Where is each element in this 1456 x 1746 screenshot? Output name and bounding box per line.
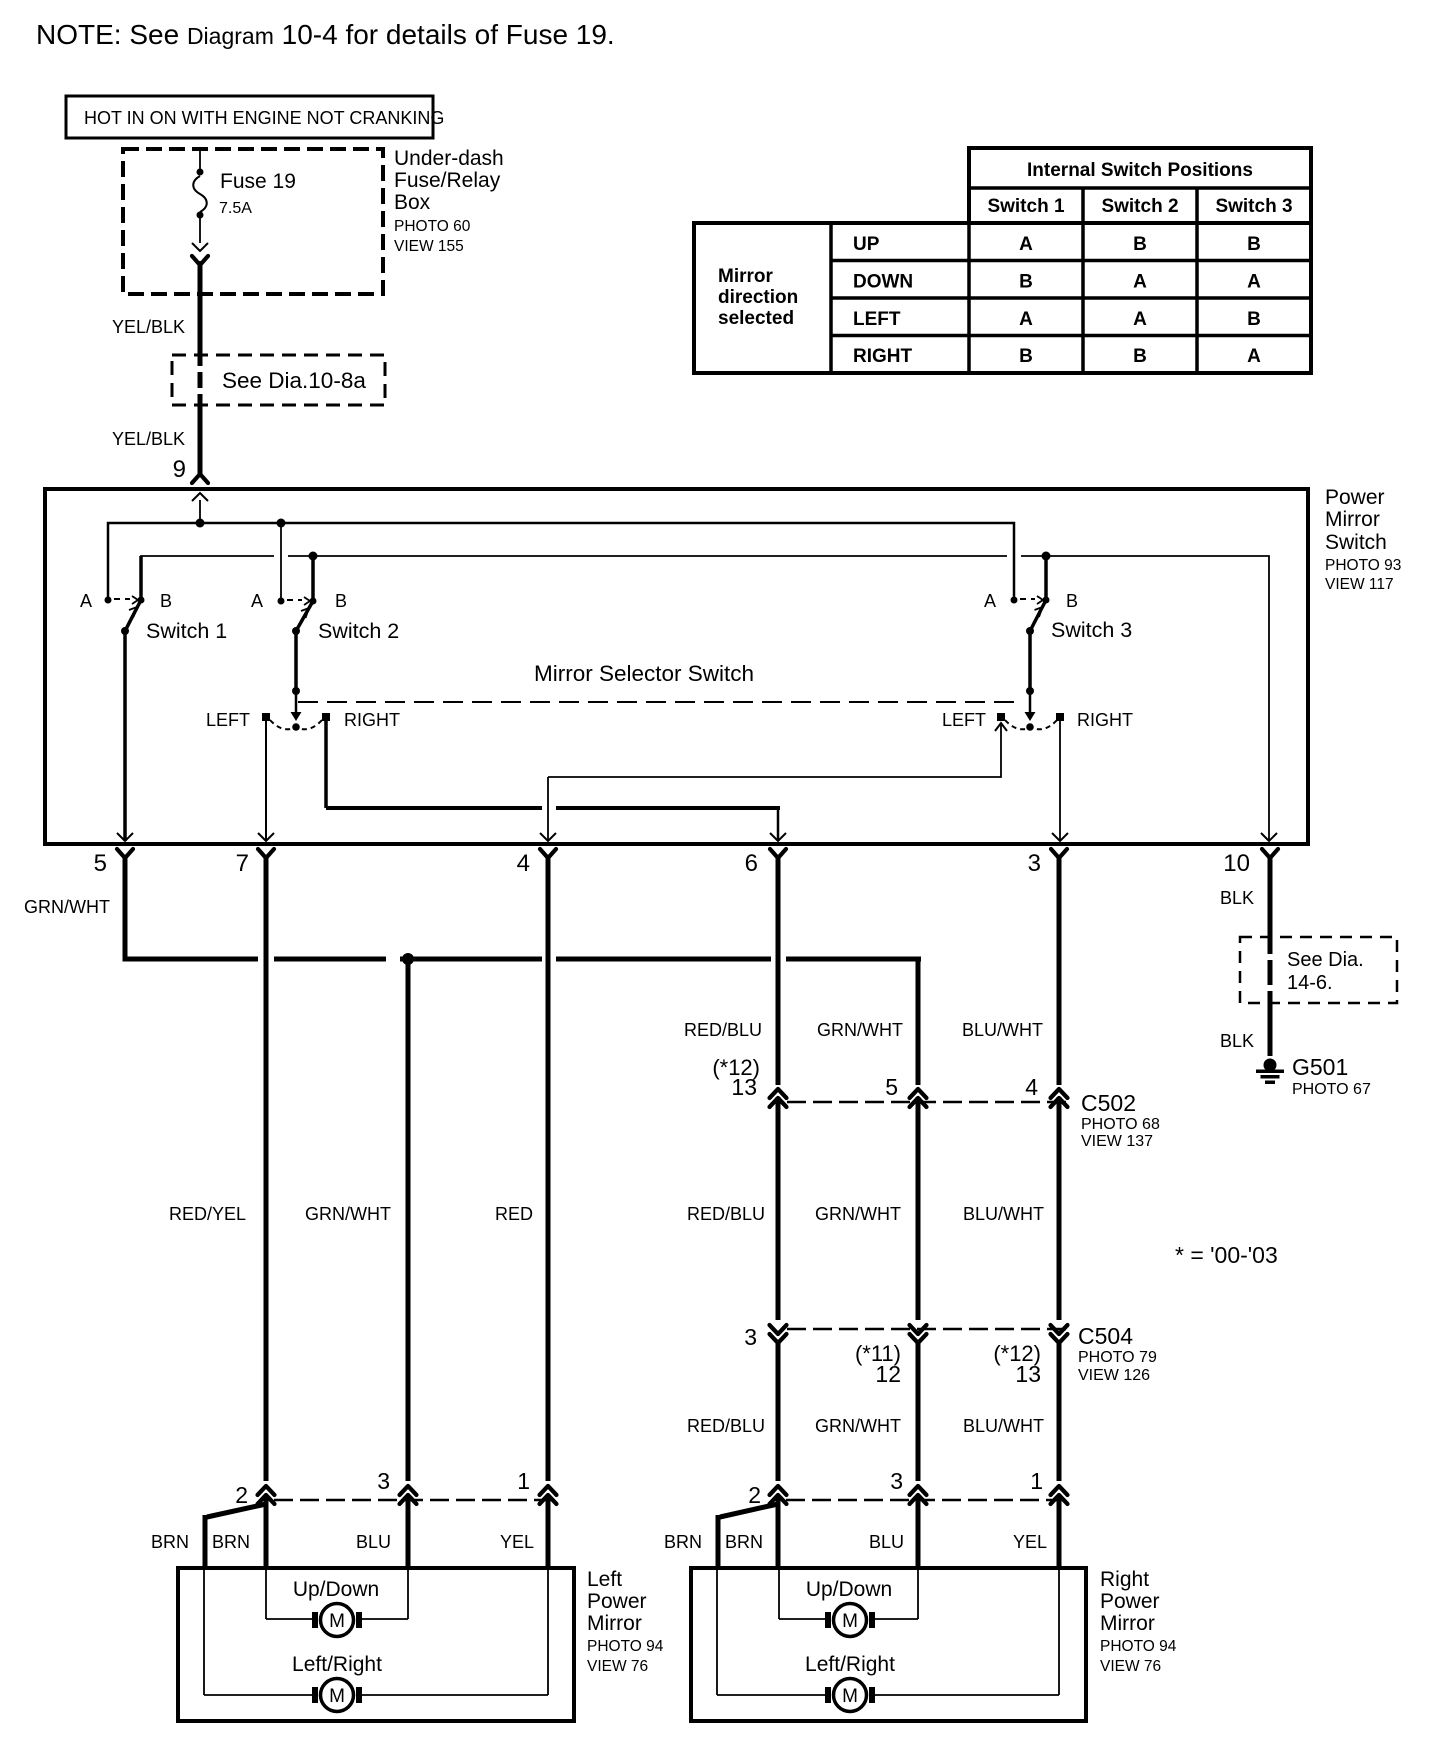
svg-text:13: 13 <box>1015 1361 1041 1387</box>
svg-text:G501: G501 <box>1292 1054 1348 1080</box>
svg-text:Mirror Selector Switch: Mirror Selector Switch <box>534 661 754 686</box>
svg-text:HOT IN ON WITH ENGINE NOT CRAN: HOT IN ON WITH ENGINE NOT CRANKING <box>84 108 444 128</box>
svg-text:RIGHT: RIGHT <box>344 710 400 730</box>
svg-text:B: B <box>1247 234 1261 255</box>
svg-text:BLU/WHT: BLU/WHT <box>963 1204 1044 1224</box>
svg-text:BLU: BLU <box>356 1532 391 1552</box>
svg-text:Switch 1: Switch 1 <box>146 619 227 643</box>
svg-text:M: M <box>329 1686 345 1707</box>
svg-text:Switch 2: Switch 2 <box>1101 196 1178 217</box>
svg-text:GRN/WHT: GRN/WHT <box>815 1204 901 1224</box>
svg-text:A: A <box>1019 309 1033 330</box>
svg-text:VIEW 155: VIEW 155 <box>394 238 464 255</box>
svg-text:Left/Right: Left/Right <box>805 1653 895 1676</box>
svg-text:3: 3 <box>377 1468 390 1494</box>
svg-text:1: 1 <box>1030 1468 1043 1494</box>
svg-text:C502: C502 <box>1081 1090 1136 1116</box>
svg-text:12: 12 <box>875 1361 901 1387</box>
svg-text:B: B <box>1066 591 1078 611</box>
svg-text:selected: selected <box>718 308 794 329</box>
svg-text:RIGHT: RIGHT <box>853 346 913 367</box>
svg-text:Power: Power <box>587 1590 647 1613</box>
svg-text:RED/BLU: RED/BLU <box>684 1020 762 1040</box>
svg-text:Switch 3: Switch 3 <box>1051 618 1132 642</box>
svg-text:B: B <box>1019 346 1033 367</box>
svg-text:A: A <box>1133 272 1147 293</box>
svg-text:M: M <box>842 1611 858 1632</box>
svg-text:(*12): (*12) <box>712 1055 760 1080</box>
svg-text:5: 5 <box>885 1074 898 1100</box>
svg-text:BLK: BLK <box>1220 1031 1254 1051</box>
svg-text:* = '00-'03: * = '00-'03 <box>1175 1242 1278 1268</box>
svg-text:BLU/WHT: BLU/WHT <box>962 1020 1043 1040</box>
svg-text:B: B <box>1133 234 1147 255</box>
svg-text:DOWN: DOWN <box>853 272 913 293</box>
svg-text:3: 3 <box>1028 850 1041 877</box>
svg-text:B: B <box>335 591 347 611</box>
svg-text:3: 3 <box>744 1324 757 1350</box>
svg-text:10: 10 <box>1223 850 1250 877</box>
svg-text:GRN/WHT: GRN/WHT <box>817 1020 903 1040</box>
svg-text:14-6.: 14-6. <box>1287 972 1333 994</box>
svg-text:Up/Down: Up/Down <box>806 1578 892 1601</box>
svg-text:direction: direction <box>718 287 798 308</box>
svg-text:A: A <box>1247 346 1261 367</box>
svg-text:A: A <box>251 591 263 611</box>
svg-text:B: B <box>1019 272 1033 293</box>
svg-text:PHOTO 68: PHOTO 68 <box>1081 1116 1160 1133</box>
svg-text:Switch: Switch <box>1325 531 1387 554</box>
svg-text:BLU: BLU <box>869 1532 904 1552</box>
svg-text:A: A <box>1133 309 1147 330</box>
svg-text:VIEW 76: VIEW 76 <box>1100 1658 1161 1675</box>
svg-text:VIEW 126: VIEW 126 <box>1078 1367 1150 1384</box>
svg-text:BLK: BLK <box>1220 888 1254 908</box>
svg-text:Switch 3: Switch 3 <box>1215 196 1292 217</box>
svg-text:7: 7 <box>236 850 249 877</box>
svg-text:B: B <box>1133 346 1147 367</box>
svg-text:Under-dash: Under-dash <box>394 147 504 170</box>
svg-text:YEL: YEL <box>500 1532 534 1552</box>
svg-text:LEFT: LEFT <box>206 710 250 730</box>
svg-text:VIEW 76: VIEW 76 <box>587 1658 648 1675</box>
svg-text:Switch 1: Switch 1 <box>987 196 1065 217</box>
svg-text:RED: RED <box>495 1204 533 1224</box>
svg-text:RIGHT: RIGHT <box>1077 710 1133 730</box>
svg-text:B: B <box>160 591 172 611</box>
svg-text:BRN: BRN <box>664 1532 702 1552</box>
svg-text:3: 3 <box>890 1468 903 1494</box>
svg-text:PHOTO 94: PHOTO 94 <box>1100 1638 1177 1655</box>
svg-text:M: M <box>842 1686 858 1707</box>
svg-text:BLU/WHT: BLU/WHT <box>963 1416 1044 1436</box>
svg-text:Fuse/Relay: Fuse/Relay <box>394 169 501 192</box>
svg-text:NOTE: See Diagram 10-4 for det: NOTE: See Diagram 10-4 for details of Fu… <box>36 19 615 50</box>
svg-text:Power: Power <box>1100 1590 1160 1613</box>
svg-text:VIEW 137: VIEW 137 <box>1081 1133 1153 1150</box>
svg-text:Right: Right <box>1100 1568 1149 1591</box>
svg-text:LEFT: LEFT <box>853 309 901 330</box>
svg-text:6: 6 <box>745 850 758 877</box>
svg-text:Mirror: Mirror <box>587 1612 642 1635</box>
svg-text:GRN/WHT: GRN/WHT <box>815 1416 901 1436</box>
svg-text:Internal Switch Positions: Internal Switch Positions <box>1027 160 1253 181</box>
svg-text:YEL: YEL <box>1013 1532 1047 1552</box>
svg-text:2: 2 <box>748 1482 761 1508</box>
svg-text:Mirror: Mirror <box>718 266 774 287</box>
svg-text:See Dia.: See Dia. <box>1287 949 1364 971</box>
svg-text:4: 4 <box>1025 1074 1038 1100</box>
svg-text:4: 4 <box>517 850 530 877</box>
svg-text:PHOTO 67: PHOTO 67 <box>1292 1081 1371 1098</box>
svg-text:A: A <box>1247 272 1261 293</box>
svg-text:See Dia.10-8a: See Dia.10-8a <box>222 368 366 393</box>
svg-text:M: M <box>329 1611 345 1632</box>
svg-text:PHOTO 93: PHOTO 93 <box>1325 557 1401 574</box>
svg-text:Mirror: Mirror <box>1325 508 1380 531</box>
svg-text:C504: C504 <box>1078 1323 1133 1349</box>
svg-text:1: 1 <box>517 1468 530 1494</box>
svg-text:UP: UP <box>853 234 880 255</box>
svg-text:Fuse 19: Fuse 19 <box>220 170 296 193</box>
svg-text:2: 2 <box>235 1482 248 1508</box>
svg-text:5: 5 <box>94 850 107 877</box>
svg-text:Power: Power <box>1325 486 1385 509</box>
svg-text:Switch 2: Switch 2 <box>318 619 399 643</box>
svg-text:BRN: BRN <box>151 1532 189 1552</box>
svg-text:A: A <box>1019 234 1033 255</box>
svg-text:Left: Left <box>587 1568 622 1591</box>
svg-text:PHOTO 79: PHOTO 79 <box>1078 1349 1157 1366</box>
svg-text:VIEW 117: VIEW 117 <box>1325 576 1394 593</box>
svg-text:Up/Down: Up/Down <box>293 1578 379 1601</box>
svg-text:PHOTO 60: PHOTO 60 <box>394 218 471 235</box>
svg-text:B: B <box>1247 309 1261 330</box>
svg-text:RED/BLU: RED/BLU <box>687 1204 765 1224</box>
svg-text:GRN/WHT: GRN/WHT <box>24 897 110 917</box>
svg-text:YEL/BLK: YEL/BLK <box>112 429 185 449</box>
svg-text:9: 9 <box>173 456 186 483</box>
svg-text:RED/YEL: RED/YEL <box>169 1204 246 1224</box>
svg-text:Box: Box <box>394 191 431 214</box>
svg-text:YEL/BLK: YEL/BLK <box>112 317 185 337</box>
svg-text:GRN/WHT: GRN/WHT <box>305 1204 391 1224</box>
svg-text:Left/Right: Left/Right <box>292 1653 382 1676</box>
svg-text:BRN: BRN <box>725 1532 763 1552</box>
svg-text:7.5A: 7.5A <box>219 200 252 217</box>
svg-text:PHOTO 94: PHOTO 94 <box>587 1638 664 1655</box>
svg-text:A: A <box>984 591 996 611</box>
svg-text:A: A <box>80 591 92 611</box>
svg-text:RED/BLU: RED/BLU <box>687 1416 765 1436</box>
svg-text:BRN: BRN <box>212 1532 250 1552</box>
svg-text:Mirror: Mirror <box>1100 1612 1155 1635</box>
svg-text:LEFT: LEFT <box>942 710 986 730</box>
